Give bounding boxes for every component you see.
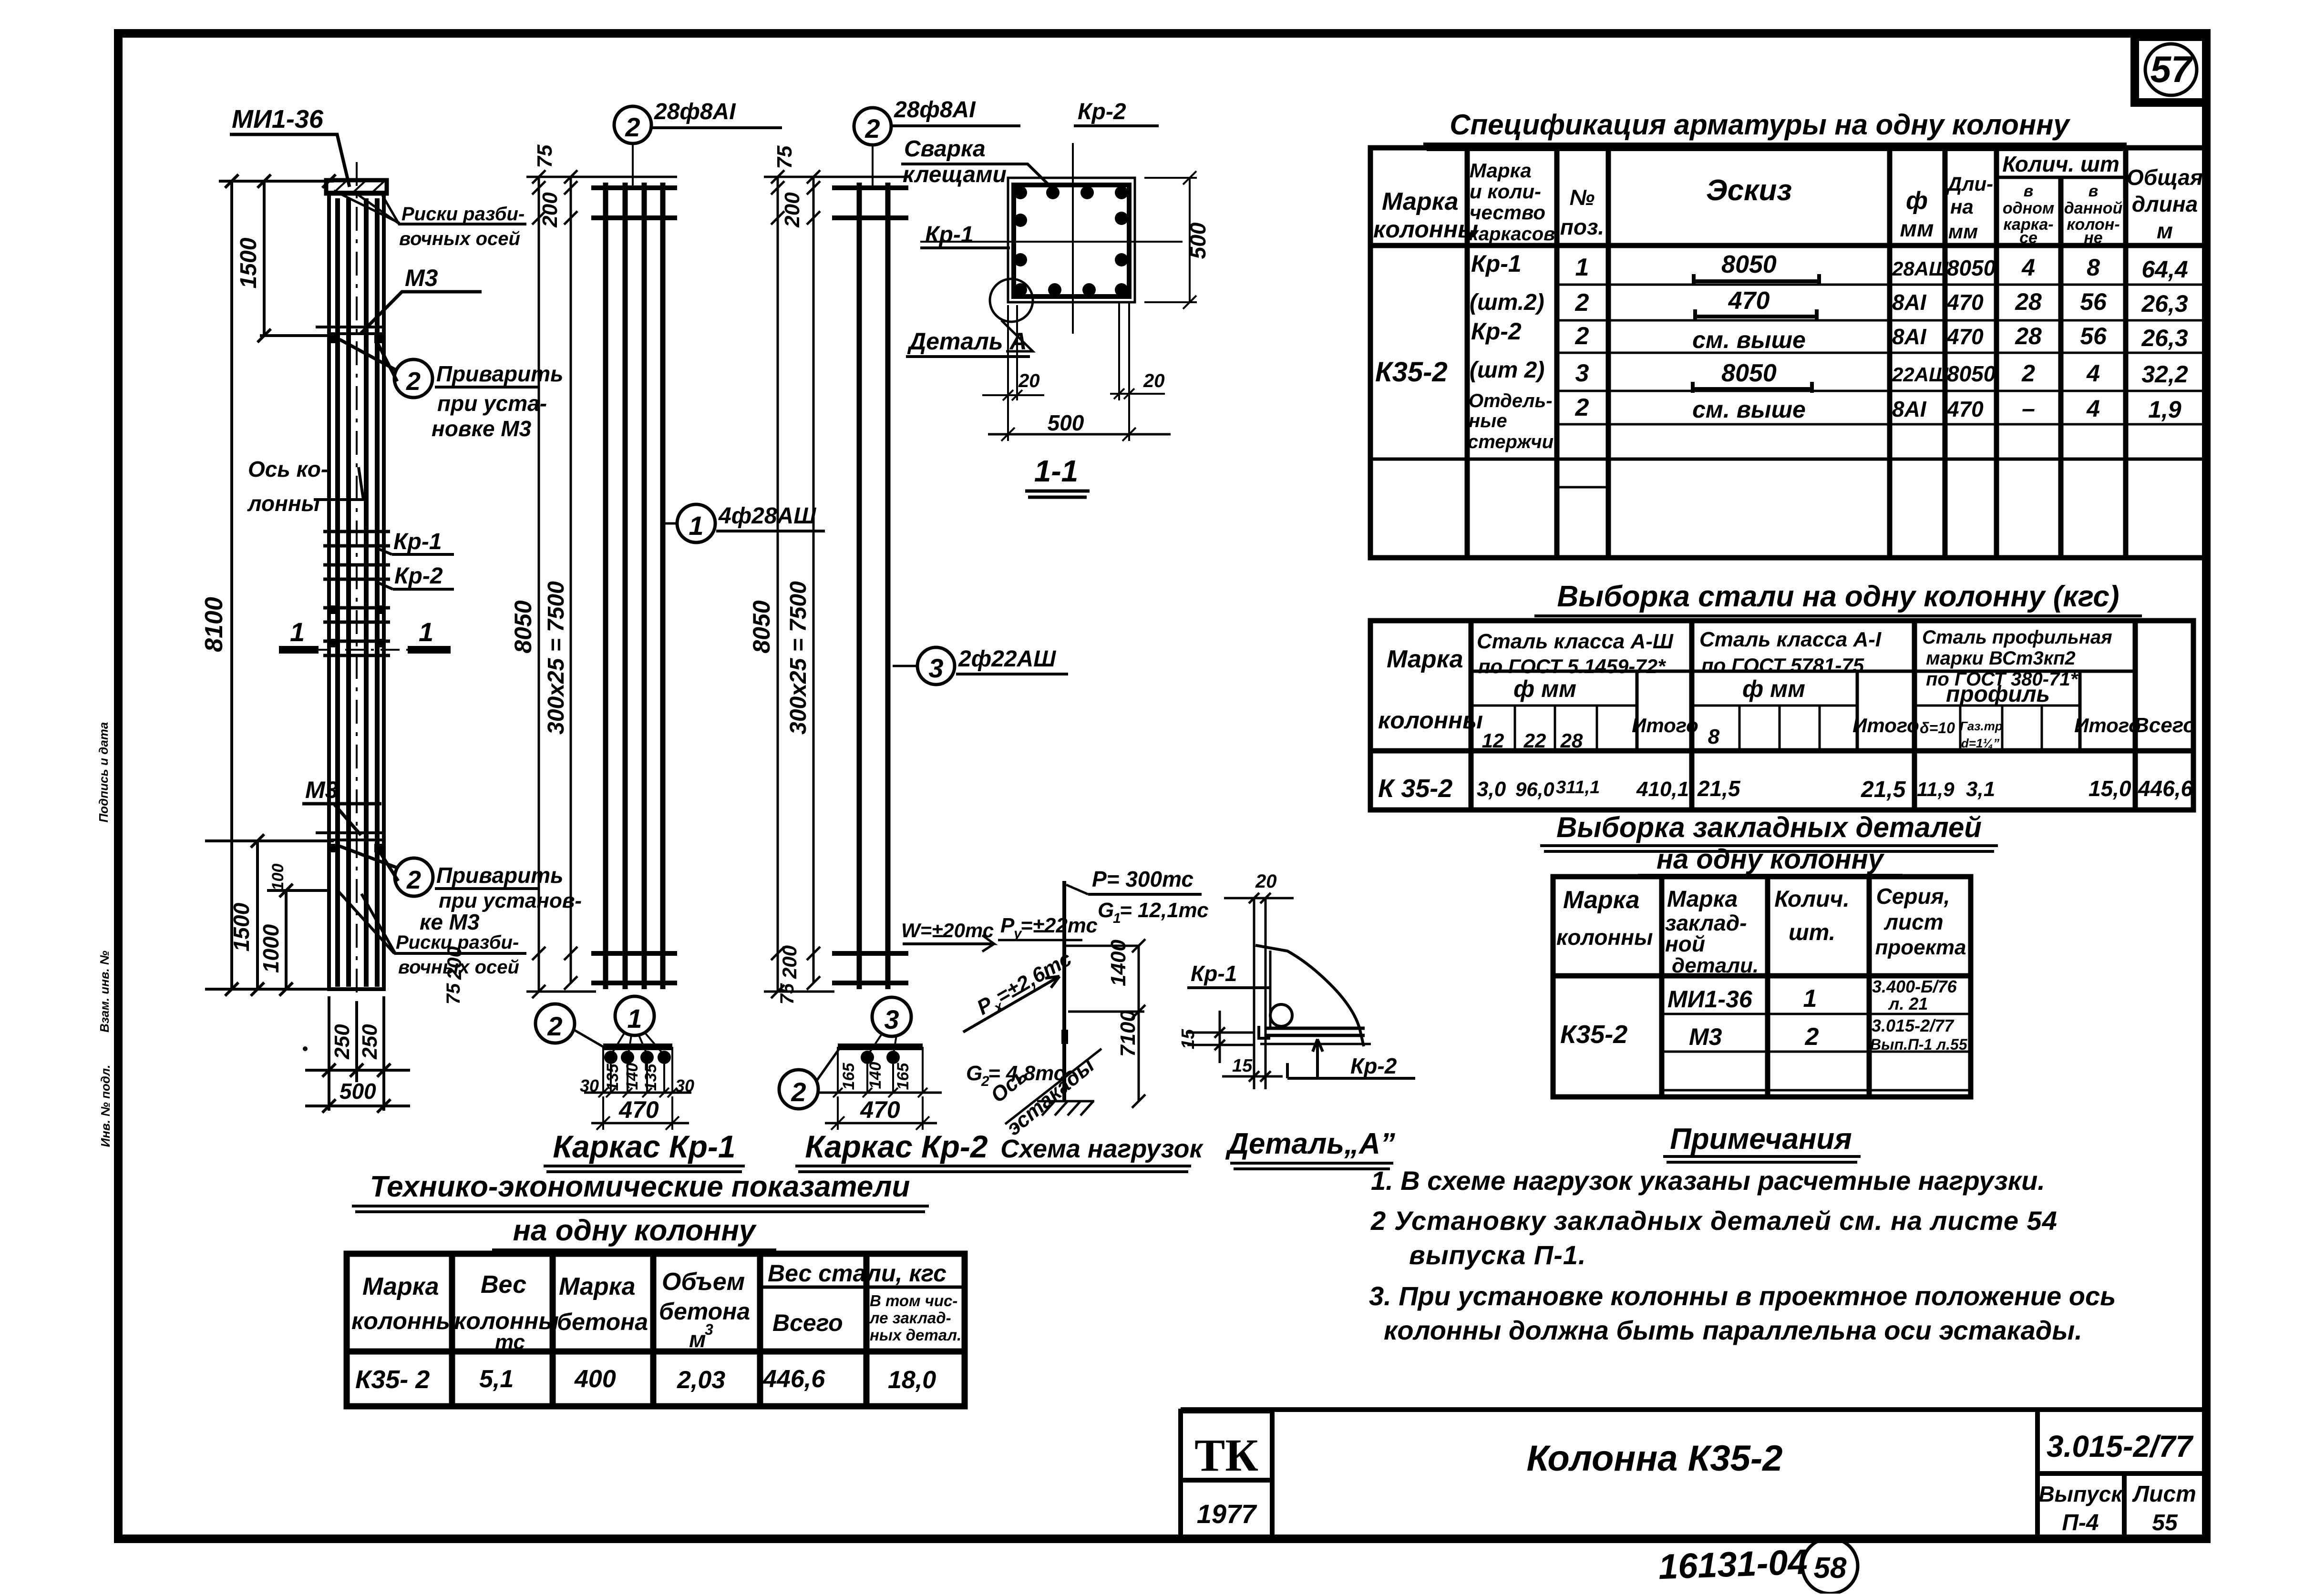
svg-text:W=±20тс: W=±20тс	[901, 919, 994, 941]
svg-text:1: 1	[290, 617, 305, 647]
svg-text:Объем: Объем	[662, 1268, 745, 1296]
svg-text:28: 28	[1560, 729, 1583, 752]
svg-text:2: 2	[1575, 322, 1589, 350]
svg-text:Кр-1: Кр-1	[1191, 961, 1237, 986]
svg-text:8050: 8050	[1947, 361, 1996, 386]
cage Kr-2 main bars	[859, 183, 888, 989]
svg-text:4: 4	[2021, 254, 2035, 281]
svg-text:Марка: Марка	[1387, 645, 1463, 673]
svg-text:Всего: Всего	[772, 1310, 843, 1336]
svg-text:2: 2	[406, 866, 421, 894]
svg-text:200: 200	[781, 192, 804, 228]
svg-text:1: 1	[419, 617, 433, 647]
svg-text:Серия,: Серия,	[1876, 884, 1950, 909]
svg-text:на одну колонну: на одну колонну	[1657, 844, 1885, 875]
svg-text:Кр-2: Кр-2	[1350, 1054, 1397, 1078]
svg-text:выпуска П-1.: выпуска П-1.	[1409, 1240, 1586, 1270]
svg-text:3. При установке колонны в про: 3. При установке колонны в проектное пол…	[1369, 1281, 2116, 1311]
sheet number box 57	[2135, 37, 2206, 102]
svg-text:2: 2	[2021, 360, 2035, 387]
svg-text:28ф8АI: 28ф8АI	[894, 97, 976, 123]
svg-text:3: 3	[1575, 359, 1589, 387]
svg-text:2: 2	[625, 112, 640, 142]
svg-text:–: –	[2022, 395, 2035, 422]
svg-text:см. выше: см. выше	[1692, 396, 1806, 423]
svg-text:Общая: Общая	[2127, 165, 2203, 190]
svg-text:3: 3	[884, 1004, 899, 1034]
svg-text:2: 2	[791, 1077, 806, 1107]
svg-text:57: 57	[2150, 48, 2193, 90]
svg-text:данной: данной	[2064, 199, 2123, 217]
svg-text:Схема нагрузок: Схема нагрузок	[1000, 1135, 1204, 1163]
svg-text:135: 135	[604, 1064, 622, 1091]
svg-text:Сварка: Сварка	[904, 136, 986, 162]
svg-text:ТК: ТК	[1194, 1430, 1258, 1481]
svg-text:3: 3	[705, 1321, 713, 1338]
svg-text:8АI: 8АI	[1892, 397, 1927, 421]
title block frame	[1181, 1410, 2206, 1539]
tep grid	[347, 1254, 965, 1406]
cage Kr-1 stirrup ties	[591, 188, 677, 983]
svg-text:= 12,1тс: = 12,1тс	[1120, 899, 1209, 922]
svg-text:d=1¼”: d=1¼”	[1961, 736, 1999, 750]
svg-text:1500: 1500	[236, 237, 261, 288]
svg-text:11,9: 11,9	[1917, 778, 1955, 800]
svg-text:75: 75	[443, 983, 464, 1004]
svg-text:8АI: 8АI	[1892, 324, 1927, 349]
svg-text:410,1: 410,1	[1636, 778, 1689, 801]
svg-text:Марка: Марка	[1563, 886, 1640, 914]
svg-text:проекта: проекта	[1875, 936, 1966, 959]
callout 3 (2f22AIII) on Kr-2 mid	[893, 647, 955, 685]
svg-text:15: 15	[1232, 1056, 1253, 1076]
svg-text:96,0: 96,0	[1515, 778, 1554, 800]
svg-text:1: 1	[1803, 985, 1817, 1013]
svg-text:новке М3: новке М3	[432, 416, 532, 441]
section centerlines	[920, 143, 1183, 334]
svg-text:470: 470	[618, 1096, 659, 1123]
svg-text:28АШ: 28АШ	[1892, 257, 1949, 280]
column body outline	[326, 180, 387, 989]
section rebar dots	[1014, 186, 1128, 297]
svg-text:лонны: лонны	[247, 491, 320, 516]
doc number 16131-04	[1658, 1542, 1808, 1586]
svg-text:одном: одном	[2003, 199, 2054, 217]
cage Kr-1 bottom assembly plan	[603, 1047, 672, 1093]
svg-text:П-4: П-4	[2062, 1510, 2099, 1535]
svg-text:К35-2: К35-2	[1375, 357, 1448, 388]
svg-text:колонны: колонны	[351, 1308, 456, 1334]
svg-text:1400: 1400	[1107, 940, 1130, 986]
svg-text:Кр-2: Кр-2	[1078, 99, 1126, 124]
svg-text:длина: длина	[2132, 192, 2198, 216]
svg-text:чество: чество	[1470, 201, 1545, 224]
section 1-1 square	[1008, 178, 1135, 302]
svg-text:18,0: 18,0	[888, 1366, 936, 1394]
svg-text:№: №	[1570, 185, 1595, 210]
svg-text:1: 1	[689, 511, 703, 541]
svg-text:Взам. инв. №: Взам. инв. №	[97, 951, 112, 1033]
svg-text:по ГОСТ 5781-75: по ГОСТ 5781-75	[1701, 654, 1864, 676]
svg-text:200: 200	[538, 192, 562, 228]
svg-text:135: 135	[642, 1064, 660, 1091]
svg-text:1500: 1500	[229, 902, 254, 951]
svg-text:100: 100	[269, 864, 287, 891]
callout 2 (28f8AI svarka) on Kr-2 top	[854, 108, 891, 186]
svg-text:28ф8АI: 28ф8АI	[654, 99, 736, 124]
load scheme ground hatch	[1037, 1101, 1094, 1115]
svg-text:56: 56	[2080, 288, 2107, 315]
svg-text:МИ1-36: МИ1-36	[232, 105, 324, 133]
section 1-1 cut marks	[279, 646, 451, 654]
svg-text:детали.: детали.	[1672, 954, 1759, 977]
svg-text:Сталь класса А-I: Сталь класса А-I	[1699, 628, 1882, 651]
svg-text:Колонна К35-2: Колонна К35-2	[1527, 1438, 1783, 1479]
svg-text:311,1: 311,1	[1556, 778, 1600, 798]
svg-text:ф мм: ф мм	[1742, 675, 1805, 702]
svg-text:8100: 8100	[200, 597, 228, 652]
svg-text:470: 470	[1728, 287, 1770, 315]
svg-text:Выборка стали на одну колонну: Выборка стали на одну колонну (кгс)	[1557, 580, 2119, 613]
svg-text:колонны: колонны	[1556, 925, 1653, 950]
svg-text:140: 140	[623, 1063, 641, 1090]
svg-text:8050: 8050	[748, 600, 775, 653]
svg-text:шт.: шт.	[1789, 920, 1835, 945]
svg-text:Колич. шт: Колич. шт	[2002, 152, 2120, 176]
svg-text:поз.: поз.	[1560, 215, 1604, 239]
svg-text:30: 30	[580, 1076, 599, 1095]
svg-text:3.015-2/77: 3.015-2/77	[2047, 1429, 2194, 1463]
svg-text:м: м	[689, 1327, 706, 1352]
svg-text:ф: ф	[1906, 187, 1928, 215]
svg-text:26,3: 26,3	[2141, 325, 2188, 351]
svg-text:профиль: профиль	[1946, 682, 2050, 707]
svg-text:мм: мм	[1948, 220, 1978, 243]
svg-text:ке М3: ке М3	[420, 910, 480, 934]
svg-text:4: 4	[2086, 395, 2100, 422]
svg-text:К35- 2: К35- 2	[355, 1365, 430, 1394]
svg-text:75: 75	[773, 145, 796, 169]
svg-text:мм: мм	[1900, 216, 1934, 242]
svg-text:8050: 8050	[1947, 256, 1996, 280]
svg-text:Инв. № подл.: Инв. № подл.	[98, 1065, 113, 1147]
svg-text:22АШ: 22АШ	[1892, 363, 1949, 386]
svg-text:К 35-2: К 35-2	[1378, 774, 1452, 803]
svg-text:2ф22АШ: 2ф22АШ	[958, 646, 1056, 672]
svg-text:Марка: Марка	[1382, 188, 1459, 215]
detail A column bar verticals	[1254, 898, 1270, 1089]
svg-text:Газ.тр: Газ.тр	[1960, 719, 2003, 733]
svg-text:Деталь„А”: Деталь„А”	[1225, 1127, 1395, 1160]
svg-text:22: 22	[1523, 729, 1546, 752]
svg-text:470: 470	[1946, 397, 1984, 421]
svg-text:Дли-: Дли-	[1946, 173, 1993, 195]
svg-text:1: 1	[1575, 254, 1589, 281]
svg-text:тс: тс	[495, 1330, 525, 1354]
svg-text:М3: М3	[405, 265, 438, 291]
svg-text:Примечания: Примечания	[1670, 1123, 1852, 1156]
svg-text:Кр-1: Кр-1	[393, 529, 442, 554]
svg-text:и коли-: и коли-	[1470, 180, 1541, 203]
svg-text:2: 2	[406, 367, 421, 396]
Px diagonal arrow	[963, 976, 1060, 1032]
svg-text:2: 2	[1575, 289, 1589, 317]
svg-text:8: 8	[1708, 725, 1720, 748]
svg-text:колонны: колонны	[1373, 216, 1478, 243]
svg-text:12: 12	[1482, 729, 1504, 752]
svg-text:15: 15	[1178, 1029, 1198, 1049]
svg-text:500: 500	[1048, 410, 1084, 435]
svg-text:Приварить: Приварить	[436, 361, 563, 386]
svg-text:К35-2: К35-2	[1560, 1020, 1627, 1049]
svg-text:Марка: Марка	[559, 1273, 636, 1300]
column K35-2 elevation	[205, 174, 336, 996]
svg-text:Кр-1: Кр-1	[925, 222, 974, 247]
svg-text:Технико-экономические показа: Технико-экономические показатели	[370, 1170, 910, 1203]
svg-text:8050: 8050	[510, 600, 536, 653]
svg-text:ф мм: ф мм	[1513, 675, 1576, 702]
axis estakady label	[1005, 1049, 1101, 1124]
svg-text:3,1: 3,1	[1966, 778, 1995, 801]
svg-text:каркасов: каркасов	[1469, 224, 1555, 245]
svg-text:Каркас Кр-2: Каркас Кр-2	[805, 1129, 988, 1164]
svg-text:55: 55	[2152, 1510, 2178, 1535]
svg-text:2: 2	[1575, 394, 1589, 421]
bottom width dims 250 250 500	[305, 996, 410, 1113]
svg-text:7100: 7100	[1116, 1010, 1140, 1057]
svg-text:500: 500	[1185, 222, 1210, 259]
svg-text:28: 28	[2015, 323, 2042, 349]
callout 2 on Kr-2 bottom	[779, 1049, 839, 1109]
svg-text:Вес: Вес	[481, 1271, 526, 1299]
svg-text:446,6: 446,6	[762, 1365, 825, 1393]
svg-text:Марка: Марка	[1470, 159, 1532, 182]
svg-text:4: 4	[2086, 360, 2100, 387]
svg-text:в: в	[2024, 182, 2034, 200]
svg-text:Вес стали, кгс: Вес стали, кгс	[768, 1260, 947, 1287]
svg-text:колонны: колонны	[1378, 707, 1483, 734]
callout 2 (28f8AI) on Kr-1 top	[614, 106, 651, 187]
svg-text:8050: 8050	[1721, 251, 1777, 278]
svg-text:Колич.: Колич.	[1774, 887, 1850, 912]
svg-text:по ГОСТ 5.1459-72*: по ГОСТ 5.1459-72*	[1478, 655, 1666, 677]
svg-text:140: 140	[866, 1062, 885, 1089]
svg-text:в: в	[2089, 182, 2099, 200]
dims 1400 7100	[1068, 939, 1145, 1108]
svg-text:м: м	[2157, 218, 2173, 243]
svg-text:8АI: 8АI	[1892, 290, 1927, 315]
table specification grid	[1370, 148, 2206, 558]
svg-text:лист: лист	[1883, 910, 1943, 934]
svg-text:3.015-2/77: 3.015-2/77	[1872, 1016, 1955, 1035]
svg-text:400: 400	[574, 1365, 616, 1393]
svg-text:Кр-2: Кр-2	[1471, 318, 1522, 345]
svg-text:200: 200	[778, 945, 801, 979]
svg-text:30: 30	[675, 1076, 694, 1095]
svg-text:=±22тс: =±22тс	[1020, 914, 1098, 937]
svg-text:Всего: Всего	[2134, 714, 2196, 737]
Kr-1 / Kr-2 cage marks on column	[323, 532, 390, 655]
svg-text:л. 21: л. 21	[1888, 994, 1928, 1013]
svg-text:на одну колонну: на одну колонну	[513, 1214, 757, 1247]
svg-text:56: 56	[2080, 323, 2107, 349]
svg-text:Итого: Итого	[1852, 714, 1919, 737]
cage Kr-2 bottom assembly plan	[838, 1047, 923, 1093]
callout 2 on Kr-1 bottom	[535, 1004, 604, 1047]
svg-text:(шт 2): (шт 2)	[1470, 358, 1544, 383]
svg-text:1977: 1977	[1197, 1499, 1257, 1529]
svg-text:75: 75	[777, 983, 798, 1004]
svg-text:колонны должна быть параллельн: колонны должна быть параллельна оси эста…	[1384, 1315, 2082, 1345]
svg-text:Ось ко-: Ось ко-	[248, 457, 328, 481]
svg-text:М3: М3	[1689, 1023, 1722, 1050]
svg-text:21,5: 21,5	[1861, 777, 1906, 802]
svg-text:3.400-Б/76: 3.400-Б/76	[1872, 977, 1957, 996]
svg-text:8050: 8050	[1721, 359, 1777, 387]
svg-text:ные: ные	[1469, 410, 1507, 431]
svg-text:Сталь класса А-Ш: Сталь класса А-Ш	[1477, 630, 1674, 653]
callout 1 (4f28AIII) on Kr-1 mid	[665, 504, 715, 542]
svg-text:при уста-: при уста-	[437, 391, 547, 416]
table embedded grid	[1553, 877, 1971, 1097]
svg-text:М3: М3	[305, 777, 339, 803]
svg-text:стержчи: стержчи	[1468, 431, 1554, 452]
svg-text:см. выше: см. выше	[1692, 327, 1806, 353]
svg-text:Итого: Итого	[1632, 714, 1698, 737]
svg-text:5,1: 5,1	[479, 1365, 514, 1393]
callout 2 privarit top	[340, 339, 432, 398]
svg-text:20: 20	[1143, 370, 1165, 391]
svg-text:200: 200	[443, 946, 465, 980]
svg-text:2 Установку закладных деталей: 2 Установку закладных деталей см. на лис…	[1370, 1206, 2058, 1236]
embedded plate M3 upper	[316, 327, 384, 334]
svg-text:165: 165	[894, 1063, 912, 1090]
svg-text:вочных осей: вочных осей	[399, 228, 520, 249]
svg-text:Марка: Марка	[362, 1273, 439, 1300]
svg-text:28: 28	[2015, 288, 2042, 315]
svg-text:Кр-2: Кр-2	[394, 563, 443, 589]
svg-text:58: 58	[1814, 1552, 1847, 1585]
svg-text:470: 470	[1946, 324, 1984, 349]
detail A plate Kr-2	[1260, 1028, 1371, 1044]
column rebar lines	[338, 198, 377, 987]
detail A concrete outline	[1255, 945, 1364, 1046]
svg-text:Отдель-: Отдель-	[1469, 390, 1553, 411]
detail A indicator circle	[990, 279, 1033, 351]
svg-text:Выборка закладных деталей: Выборка закладных деталей	[1556, 811, 1982, 843]
svg-text:на: на	[1950, 195, 1974, 218]
svg-text:4ф28АШ: 4ф28АШ	[718, 503, 816, 529]
svg-text:250: 250	[330, 1024, 354, 1060]
cage Kr-1 main bars	[606, 183, 663, 989]
svg-text:1-1: 1-1	[1034, 454, 1079, 488]
load scheme axis	[1062, 881, 1066, 1101]
svg-text:32,2: 32,2	[2141, 361, 2188, 388]
svg-text:Лист: Лист	[2132, 1482, 2196, 1507]
svg-text:3: 3	[928, 653, 943, 683]
svg-text:не: не	[2084, 229, 2102, 247]
svg-text:16131-04: 16131-04	[1658, 1542, 1808, 1586]
svg-text:Приварить: Приварить	[436, 863, 563, 888]
svg-text:В том чис-: В том чис-	[870, 1292, 957, 1310]
svg-text:1,9: 1,9	[2148, 396, 2181, 423]
column centerline	[356, 162, 358, 1001]
svg-text:500: 500	[340, 1079, 376, 1104]
svg-text:(шт.2): (шт.2)	[1470, 290, 1544, 315]
svg-text:G: G	[966, 1062, 982, 1085]
svg-text:3,0: 3,0	[1477, 778, 1506, 801]
svg-text:Сталь профильная: Сталь профильная	[1922, 627, 2112, 648]
svg-text:Р: Р	[1000, 914, 1015, 937]
svg-text:1: 1	[627, 1003, 642, 1033]
svg-text:δ=10: δ=10	[1920, 719, 1955, 737]
svg-text:Спецификация арматуры на одну: Спецификация арматуры на одну колонну	[1450, 109, 2070, 141]
svg-text:Р= 300тс: Р= 300тс	[1092, 867, 1194, 891]
svg-text:2: 2	[547, 1011, 562, 1041]
svg-text:64,4: 64,4	[2141, 256, 2188, 283]
svg-text:300х25 = 7500: 300х25 = 7500	[544, 581, 569, 735]
svg-text:ле заклад-: ле заклад-	[869, 1309, 951, 1327]
svg-text:при установ-: при установ-	[439, 889, 582, 912]
svg-text:26,3: 26,3	[2141, 290, 2188, 317]
svg-text:75: 75	[533, 144, 556, 168]
svg-text:20: 20	[1018, 370, 1040, 391]
callout 1 on Kr-1 bottom	[612, 996, 663, 1054]
svg-text:се: се	[2019, 229, 2037, 247]
embedded plate M3 lower	[316, 833, 384, 840]
svg-text:Каркас Кр-1: Каркас Кр-1	[553, 1129, 735, 1164]
svg-text:Эскиз: Эскиз	[1706, 174, 1792, 207]
svg-text:МИ1-36: МИ1-36	[1667, 986, 1753, 1013]
svg-text:1. В схеме нагрузок указаны ра: 1. В схеме нагрузок указаны расчетные на…	[1371, 1166, 2045, 1196]
svg-text:Выпуск: Выпуск	[2038, 1482, 2123, 1506]
svg-text:Подпись и дата: Подпись и дата	[96, 722, 111, 823]
svg-text:15,0: 15,0	[2089, 776, 2131, 801]
svg-text:1000: 1000	[258, 924, 283, 973]
svg-text:марки ВСт3кп2: марки ВСт3кп2	[1926, 648, 2076, 669]
svg-text:446,6: 446,6	[2138, 776, 2193, 801]
svg-text:2,03: 2,03	[677, 1366, 725, 1394]
svg-text:ной: ной	[1665, 931, 1705, 956]
svg-text:300х25 = 7500: 300х25 = 7500	[786, 581, 811, 735]
svg-text:2: 2	[1805, 1023, 1819, 1051]
svg-text:165: 165	[840, 1063, 858, 1090]
svg-text:8: 8	[2087, 254, 2100, 281]
svg-text:Риски разби-: Риски разби-	[401, 204, 525, 225]
svg-text:21,5: 21,5	[1697, 776, 1741, 801]
svg-text:клещами: клещами	[903, 162, 1007, 187]
table steel grid	[1370, 621, 2193, 810]
svg-text:Вып.П-1 л.55: Вып.П-1 л.55	[1870, 1036, 1968, 1053]
section dims	[982, 171, 1197, 441]
cage Kr-2 stirrup ties	[832, 188, 908, 983]
svg-text:Итого: Итого	[2074, 714, 2141, 737]
svg-text:470: 470	[860, 1096, 900, 1123]
callout 2 privarit lower	[340, 846, 433, 896]
svg-text:2: 2	[864, 113, 880, 143]
svg-text:бетона: бетона	[557, 1309, 648, 1335]
svg-text:Марка: Марка	[1667, 887, 1738, 912]
svg-text:250: 250	[358, 1024, 381, 1060]
svg-text:Кр-1: Кр-1	[1471, 250, 1522, 277]
stamp circle 58	[1802, 1538, 1858, 1594]
svg-text:G: G	[1098, 899, 1114, 922]
svg-text:470: 470	[1946, 290, 1984, 315]
svg-text:20: 20	[1255, 871, 1277, 892]
svg-text:ных детал.: ных детал.	[870, 1326, 961, 1344]
callout 3 on Kr-2 bottom	[869, 997, 911, 1054]
